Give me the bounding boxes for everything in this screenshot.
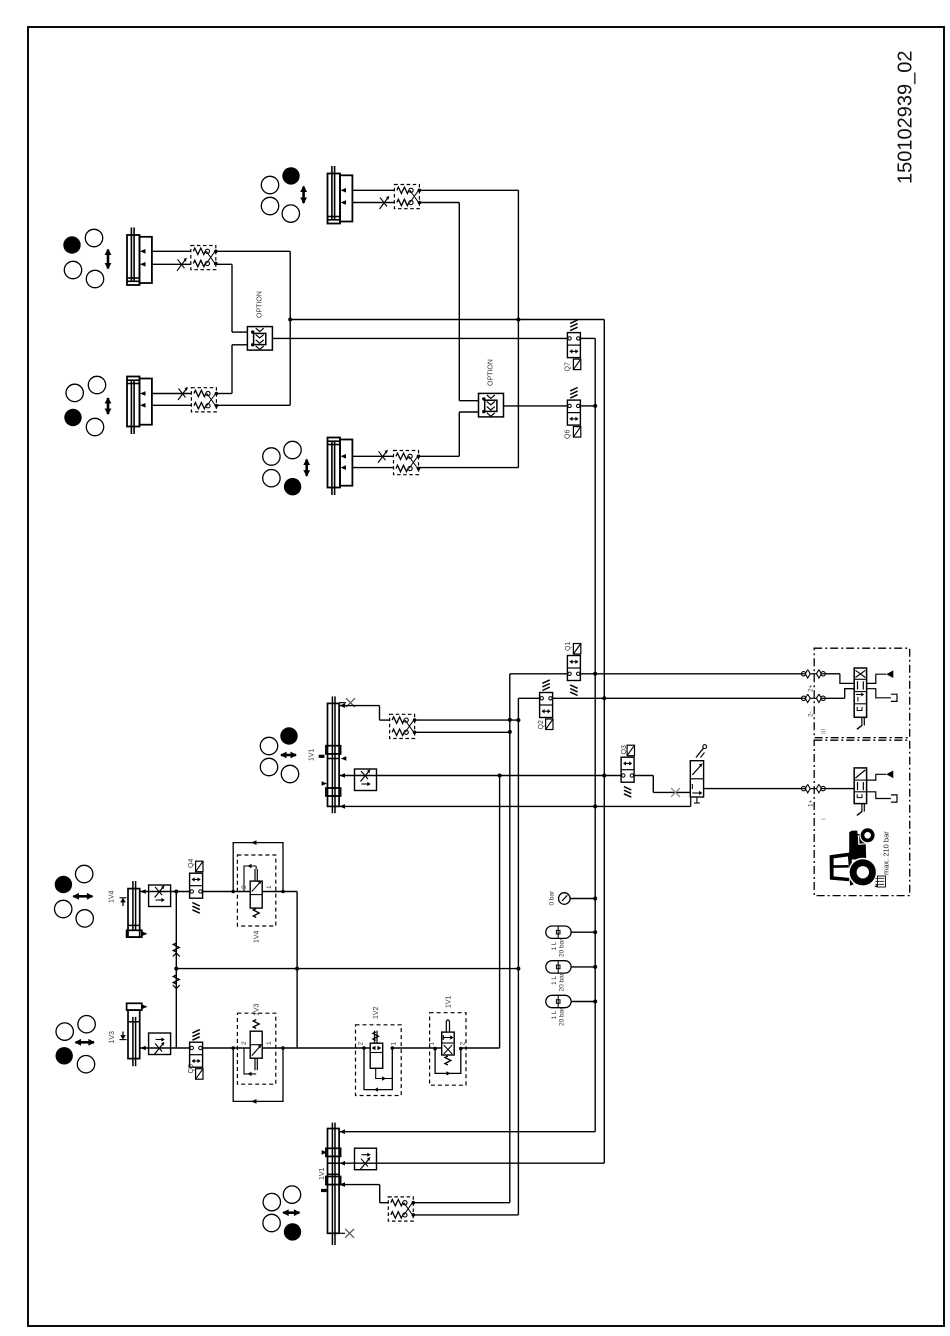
pressure gauge 0 bar [549, 890, 598, 906]
junction x290 bus [288, 318, 292, 322]
wire Q6 right to trunk [580, 405, 595, 407]
wire TB1 to trunk [419, 189, 518, 191]
svg-text:0 bar: 0 bar [549, 890, 556, 906]
wire TB2 bottom to OPTION1 top [216, 263, 232, 265]
svg-text:Q7: Q7 [565, 362, 572, 371]
svg-text:1: 1 [266, 885, 273, 889]
blocked port Z5 [339, 702, 346, 704]
TB1 double throttle check valve [394, 185, 421, 209]
wire x499.6 riser [499, 776, 501, 1049]
SQ6 one-way flow control [149, 885, 171, 907]
svg-text:2: 2 [358, 1042, 365, 1046]
svg-text:1 L: 1 L [551, 976, 558, 985]
cylinder Z8 (1V1) [322, 1123, 345, 1245]
cluster K3 hose colour code circles [64, 376, 111, 435]
wire Z8 throttle line [339, 1162, 604, 1164]
relief valve 1V2 [356, 1025, 402, 1096]
svg-text:1 L: 1 L [551, 941, 558, 950]
wire TB4 bottom to x518 [419, 467, 519, 469]
cylinder Z3 hydraulic cylinder [127, 377, 152, 435]
trunk vertical x595 [594, 338, 596, 1131]
tractor icon [830, 827, 878, 887]
svg-text:OPTION: OPTION [257, 291, 264, 318]
DR3 adjustable throttle [178, 387, 188, 400]
port arrows Z3 [140, 391, 146, 396]
wire OPTION2 upper-left port stub [459, 400, 478, 402]
wire Z5 top port to TB5 [339, 705, 379, 707]
svg-text:1V4: 1V4 [254, 930, 261, 943]
TB4 double throttle check valve [394, 451, 421, 475]
cluster K7 hose colour code circles [55, 1015, 95, 1072]
cylinder Z7 [127, 1003, 148, 1066]
coupler 2plus [801, 670, 825, 678]
wire 1V4 port1 riser x297 [296, 892, 298, 1049]
wire vertical x509.8 Q1 to cyl8 [509, 674, 511, 1203]
wire TB5 bottom to x509 [415, 731, 510, 733]
CV1 check valve [173, 943, 180, 957]
wire vertical x290 [289, 251, 291, 405]
cluster K5 hose colour code circles [260, 727, 298, 782]
wire Z3 bottom port [152, 404, 191, 406]
wire Z5 mid line [339, 775, 621, 777]
wire OPTION2 right to Q6 [504, 405, 568, 407]
wire TB1 bottom to OPTION2 [419, 202, 459, 204]
svg-text:1V2: 1V2 [373, 1006, 380, 1019]
wire Q5 to 1V3 [203, 1047, 251, 1049]
DR4 adjustable throttle [378, 450, 388, 463]
dash-dot box III [814, 648, 910, 738]
coupler 2minus [801, 694, 825, 702]
svg-text:20 bar: 20 bar [559, 938, 566, 957]
CV2 check valve [173, 975, 180, 989]
valve Q1 (QV1) [565, 642, 581, 696]
wire Q2 right to couplers [553, 697, 802, 699]
relief valve 1V3 [231, 1013, 284, 1103]
svg-text:2: 2 [460, 1042, 467, 1046]
wire Q4 to 1V4 [203, 891, 251, 893]
svg-text:2: 2 [241, 1041, 248, 1045]
TB3 double throttle check valve [191, 388, 218, 412]
svg-text:20 bar: 20 bar [559, 1007, 566, 1026]
wire Z2 top port [152, 250, 191, 252]
TB5 double throttle check valve [390, 714, 417, 738]
wire Z5 bottom line [339, 805, 691, 807]
accumulator SP3 1L 20bar [546, 995, 597, 1026]
label tick Z5 [319, 755, 325, 758]
wire 1V3 to valve A [262, 1047, 370, 1049]
cluster K1 hose colour code circles [261, 167, 307, 222]
wire manual valve bottom [690, 797, 692, 806]
svg-text:III: III [821, 728, 828, 734]
coupler 1plus [801, 784, 825, 792]
wire Z7 line [140, 1047, 190, 1049]
trunk vertical x604 [603, 320, 605, 1164]
DR2 adjustable throttle [177, 258, 187, 271]
valve Q4 (QV4) [188, 859, 203, 914]
dash-dot box I [814, 740, 910, 895]
svg-text:Q1: Q1 [565, 642, 572, 651]
wire Z8 top port [339, 1131, 595, 1133]
manual selector valve [690, 745, 706, 803]
tractor control valve I [825, 768, 897, 816]
OPTION2 pilot check valve [479, 359, 504, 417]
svg-text:Q3: Q3 [621, 745, 628, 754]
wire Z4 top port [352, 455, 393, 457]
svg-text:1 L: 1 L [551, 1010, 558, 1019]
valve Q7 (QV7) [565, 320, 581, 372]
label tick Z8 [321, 1189, 327, 1192]
SQ7 one-way flow control [149, 1033, 171, 1055]
wire TB2 top to x290 [216, 250, 290, 252]
cluster K2 hose colour code circles [63, 229, 111, 287]
wire OPTION1 right to Q7 [272, 337, 567, 339]
port arrows Z2 [140, 249, 146, 254]
SQ8 one-way flow control [355, 1148, 377, 1170]
wire Z1 bottom port [352, 202, 394, 204]
riser x176.3 [175, 892, 177, 1049]
svg-text:Q2: Q2 [538, 720, 545, 729]
wire 1V4 to x297 [262, 891, 297, 893]
TB6 double throttle check valve [388, 1197, 415, 1221]
wire TB4 top to OPTION2 lower [419, 455, 460, 457]
svg-text:1V4: 1V4 [109, 890, 116, 903]
wire Z1 top port [352, 189, 394, 191]
svg-text:150102939_02: 150102939_02 [895, 51, 917, 184]
cluster K4 hose colour code circles [263, 441, 310, 495]
DR1 adjustable throttle [380, 196, 390, 209]
wire TB5 top to Q2 riser [415, 719, 519, 721]
wire TB3 top to OPTION1 bottom [216, 393, 232, 395]
wire valveA to valveB [392, 1047, 441, 1049]
wire Z4 bottom port [352, 467, 393, 469]
valve Q5 (QV5) [188, 1030, 203, 1080]
cylinder Z1 hydraulic cylinder [328, 166, 353, 224]
svg-text:1V1: 1V1 [319, 1167, 326, 1180]
valve Q2 (QV2) [538, 680, 553, 730]
direction icon Z7 [122, 1032, 124, 1037]
svg-text:2-: 2- [808, 711, 815, 717]
wire vertical x518.4 to cyl8 bottom [517, 732, 519, 1215]
wire Q3 to manual valve [634, 775, 653, 777]
cylinder Z4 hydraulic cylinder [328, 438, 353, 496]
cylinder Z6 [127, 881, 148, 937]
svg-text:1: 1 [391, 1042, 398, 1046]
svg-text:1+: 1+ [808, 799, 815, 807]
cylinder Z2 hydraulic cylinder [127, 228, 152, 286]
cluster K6 hose colour code circles [55, 865, 94, 927]
wire TB6 bottom to x518 [413, 1214, 518, 1216]
port arrows Z1 [341, 188, 347, 193]
manual reference icon [878, 876, 886, 887]
relief valve 1V1 [429, 1013, 467, 1085]
left bus to x518 [176, 968, 518, 970]
wire Z6 line [140, 891, 190, 893]
accumulator SP2 1L 20bar [546, 961, 597, 992]
wire Q1 line [510, 673, 568, 675]
cluster K8 hose colour code circles [263, 1186, 301, 1241]
svg-text:max. 210 bar: max. 210 bar [882, 831, 891, 875]
wire Z3 top port [152, 393, 191, 395]
svg-text:1V1: 1V1 [446, 995, 453, 1008]
svg-text:1V1: 1V1 [309, 748, 316, 761]
wire TB6 top to x509 [413, 1202, 510, 1204]
port arrows Z4 [341, 454, 347, 459]
valve Q3 (QV3) [621, 745, 635, 797]
TB2 double throttle check valve [191, 246, 218, 270]
accumulator SP1 1L 20bar [546, 926, 597, 957]
svg-text:I: I [821, 818, 828, 820]
svg-text:OPTION: OPTION [488, 359, 495, 386]
valve Q6 (QV6) [565, 388, 581, 440]
wire Q2 elbow [518, 697, 539, 699]
relief valve 1V4 [231, 840, 284, 926]
wire vertical x518 cyl1-top to cyl4-bottom [517, 190, 519, 467]
wire Z2 bottom port [152, 263, 191, 265]
svg-text:Q4: Q4 [188, 859, 195, 868]
svg-text:Q6: Q6 [565, 430, 572, 439]
OPTION1 pilot check valve [247, 291, 272, 350]
blocked port Z8 [339, 1232, 345, 1234]
bus line to trunk x604 [290, 319, 604, 321]
tractor control valve III [825, 668, 897, 729]
svg-text:1: 1 [429, 1042, 436, 1046]
wire manual valve to coupler 1+ [704, 788, 802, 790]
svg-text:1V3: 1V3 [109, 1031, 116, 1044]
svg-text:2: 2 [241, 885, 248, 889]
wire x290 elbow to cyl3 bottom line [216, 404, 290, 406]
svg-text:2+: 2+ [808, 684, 815, 692]
wire Z8 flange port to TB6 [339, 1184, 380, 1186]
direction icon Z6 [122, 901, 124, 906]
SQ5 one-way flow control [355, 769, 377, 791]
cylinder Z5 (1V1) [322, 696, 347, 813]
svg-text:1: 1 [266, 1041, 273, 1045]
svg-text:20 bar: 20 bar [559, 972, 566, 991]
svg-text:1V3: 1V3 [254, 1003, 261, 1016]
wire Q7 right to trunk [580, 337, 595, 339]
svg-text:Q5: Q5 [188, 1064, 195, 1073]
